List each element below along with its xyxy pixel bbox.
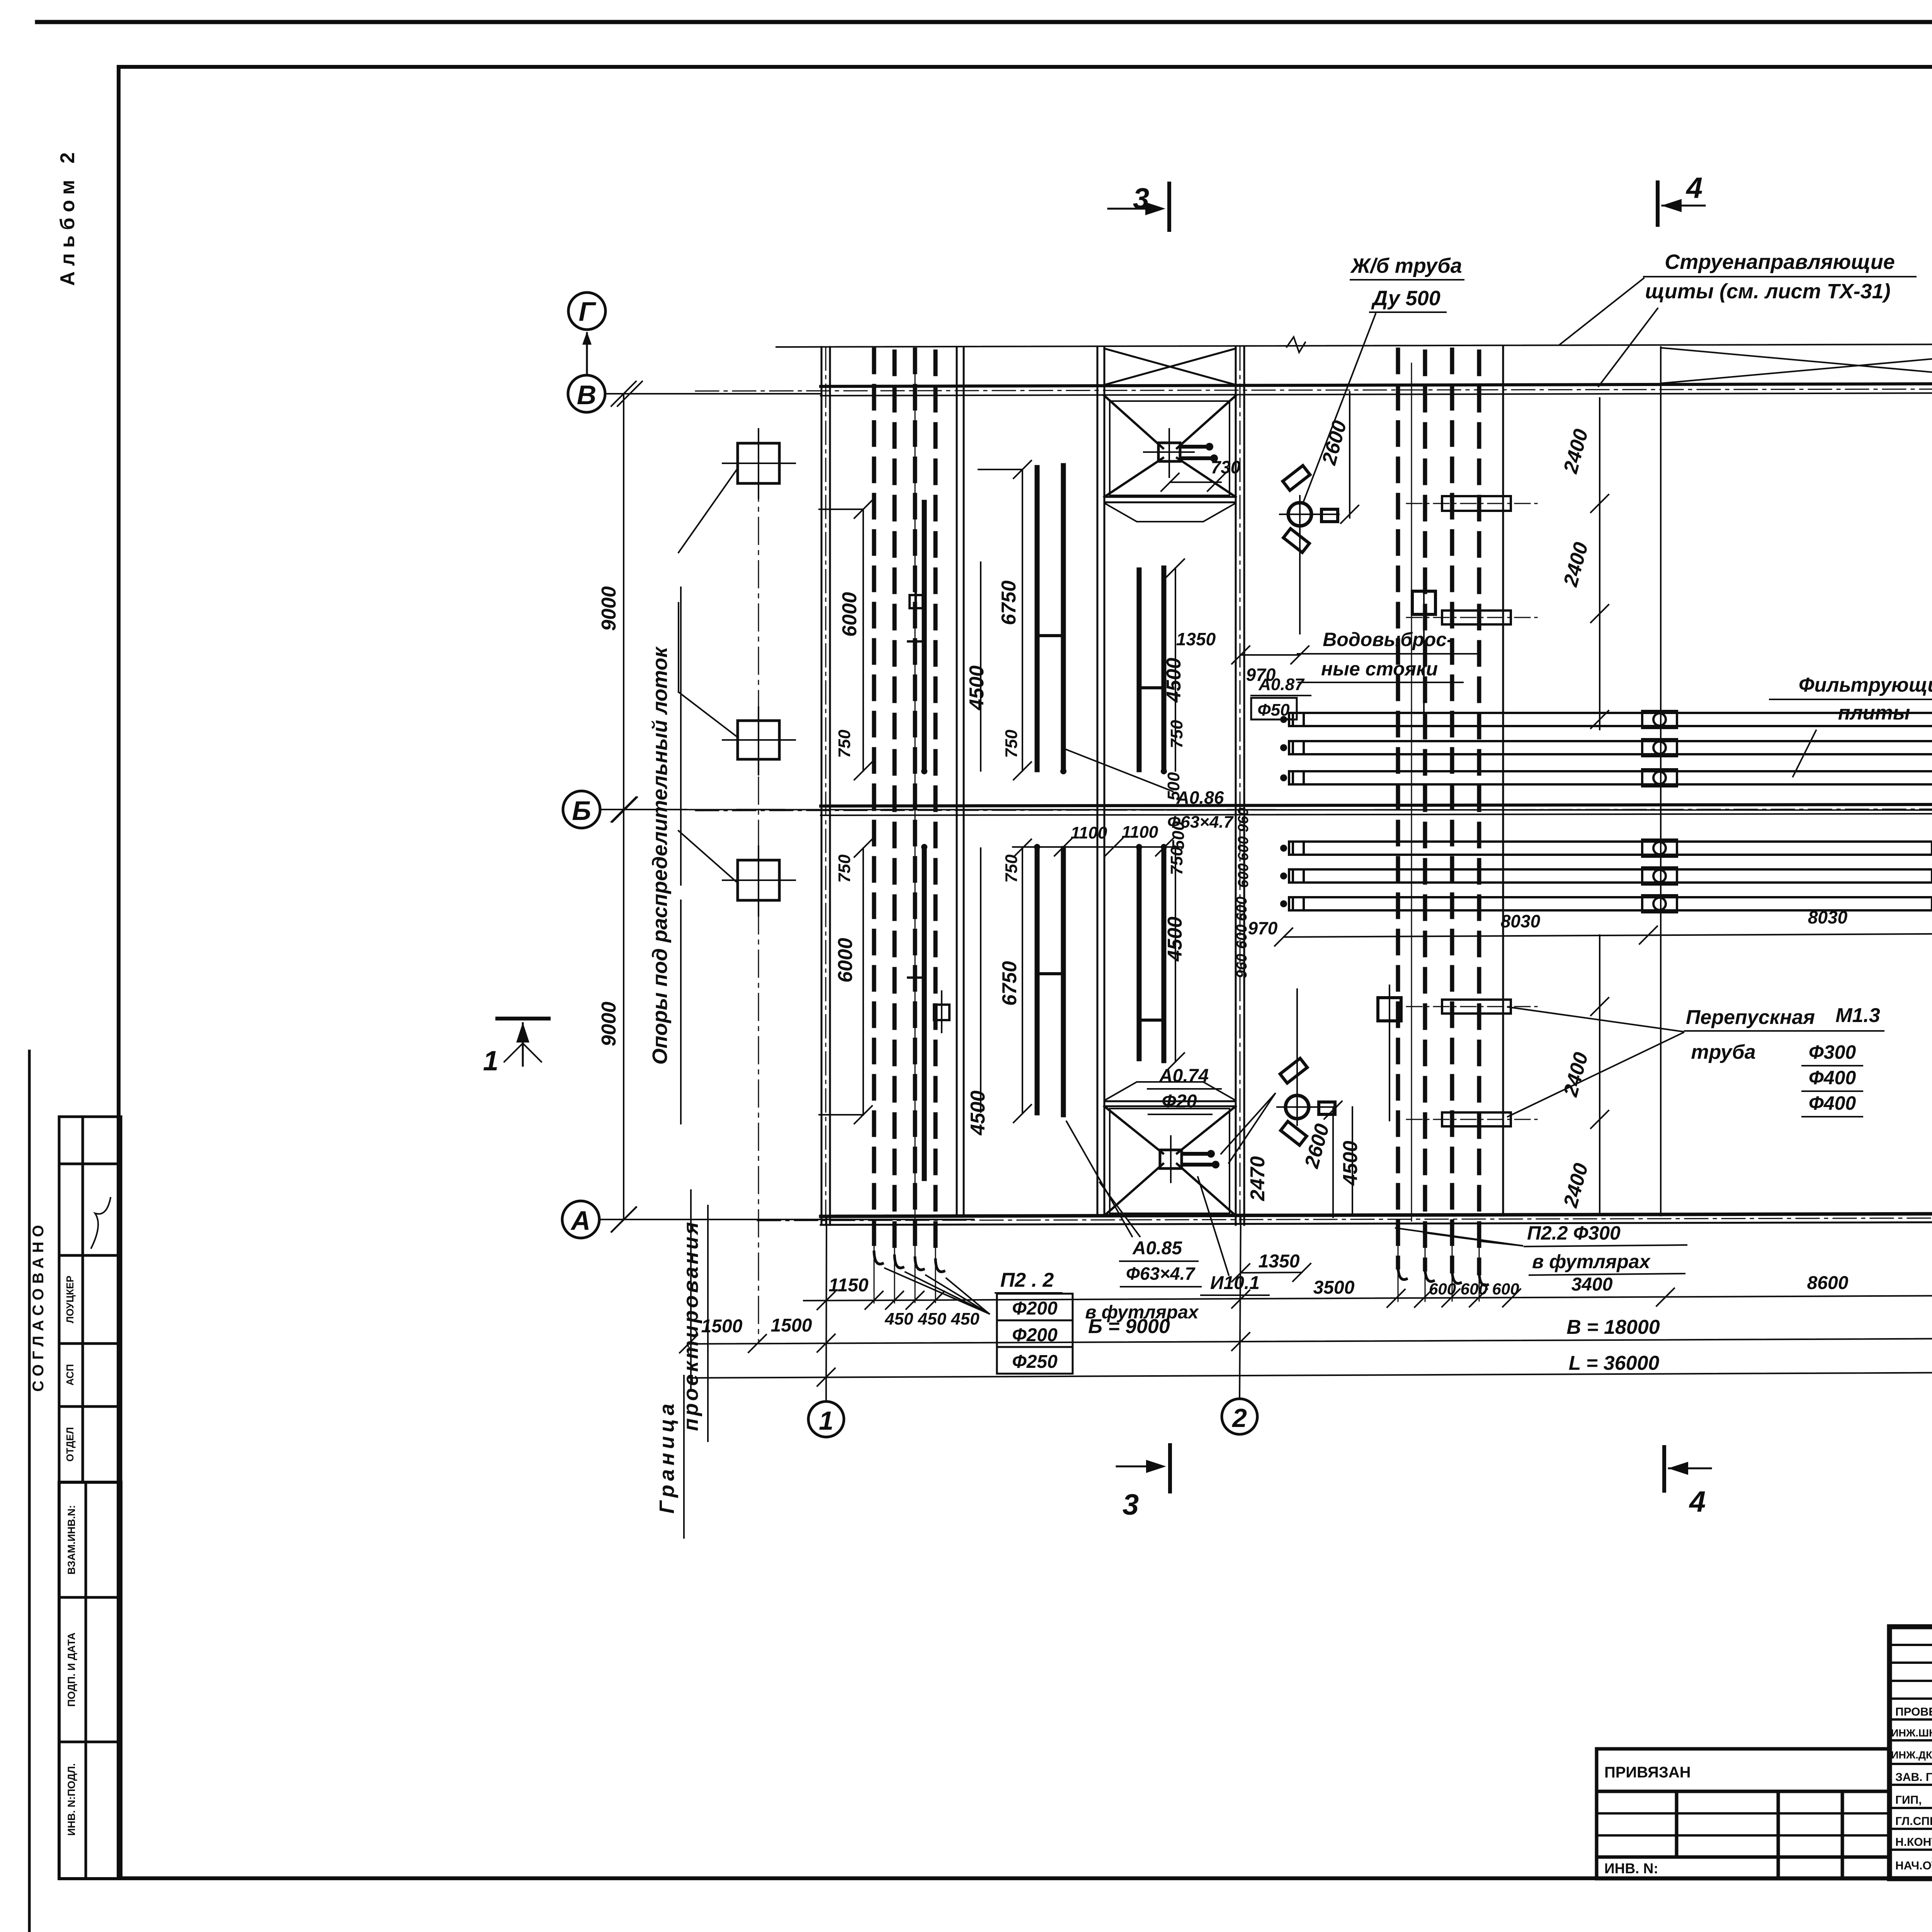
svg-text:1: 1 — [483, 1046, 498, 1077]
svg-text:Ф400: Ф400 — [1809, 1092, 1856, 1114]
svg-text:Фильтрующие: Фильтрующие — [1799, 674, 1932, 696]
bottom axis circles — [808, 1209, 1932, 1437]
svg-text:8030: 8030 — [1808, 907, 1848, 927]
svg-text:Ф63×4.7: Ф63×4.7 — [1126, 1264, 1196, 1284]
gate bars lower ch3 — [1139, 849, 1164, 1061]
svg-text:А: А — [570, 1206, 591, 1236]
svg-text:Струенаправляющие: Струенаправляющие — [1665, 250, 1895, 274]
svg-text:Ф200: Ф200 — [1012, 1325, 1058, 1345]
strip X left — [1104, 349, 1236, 385]
axis circle 2 — [1222, 1399, 1257, 1434]
pipe extension lines to dim row — [874, 1225, 1479, 1303]
mini dim 1350 lower — [1241, 1272, 1302, 1273]
svg-text:750: 750 — [835, 854, 854, 883]
dim 2600 lower — [1332, 1107, 1334, 1217]
svg-text:ГИП,: ГИП, — [1895, 1794, 1922, 1806]
strip X mid — [1661, 348, 1932, 383]
svg-text:в футлярах: в футлярах — [1085, 1302, 1199, 1323]
svg-text:9000: 9000 — [598, 586, 620, 631]
svg-text:600: 600 — [1234, 896, 1250, 921]
svg-text:600: 600 — [1235, 836, 1252, 861]
svg-text:Перепускная: Перепускная — [1686, 1006, 1815, 1029]
wall band А bottom — [821, 1213, 1932, 1216]
svg-text:3400: 3400 — [1571, 1274, 1613, 1295]
svg-text:960: 960 — [1234, 954, 1250, 978]
svg-text:СОГЛАСОВАНО: СОГЛАСОВАНО — [30, 1220, 47, 1391]
dim verticals left section — [819, 469, 1352, 1214]
small square upper mid — [1412, 591, 1435, 614]
left wall — [821, 347, 823, 1225]
svg-text:9000: 9000 — [598, 1002, 620, 1046]
svg-text:М1.3: М1.3 — [1835, 1004, 1880, 1027]
mark 4 bottom — [1662, 1447, 1666, 1491]
clamps lower — [1642, 840, 1677, 912]
svg-text:ГЛ.СПЕЦ.: ГЛ.СПЕЦ. — [1895, 1815, 1932, 1828]
col2 wall — [1235, 347, 1237, 1225]
svg-text:в футлярах: в футлярах — [1532, 1251, 1651, 1272]
svg-text:Ф20: Ф20 — [1162, 1091, 1197, 1112]
futlyar sleeves lower — [1442, 1000, 1511, 1014]
svg-text:4500: 4500 — [1339, 1141, 1362, 1186]
PLAN-WALLS — [696, 333, 1932, 1225]
mechanism upper — [1158, 443, 1180, 461]
mark 3 bottom — [1168, 1445, 1172, 1492]
svg-text:АСП: АСП — [64, 1364, 76, 1386]
svg-text:750: 750 — [1167, 720, 1186, 748]
axis line 1 — [826, 1216, 827, 1401]
svg-text:И10.1: И10.1 — [1210, 1273, 1260, 1293]
svg-text:4500: 4500 — [966, 665, 988, 711]
svg-text:А0.86: А0.86 — [1176, 787, 1224, 808]
svg-text:L = 36000: L = 36000 — [1569, 1352, 1660, 1374]
Zhb truba circle upper — [1288, 503, 1311, 526]
centerlines — [696, 340, 1932, 1224]
dim 730 — [1170, 481, 1221, 483]
9000 dim line left — [611, 381, 636, 1232]
svg-text:ИНЖ.ДКАТ.: ИНЖ.ДКАТ. — [1891, 1749, 1932, 1761]
Zhb truba circle lower — [1286, 1095, 1309, 1119]
filter plates lower band — [1289, 842, 1932, 910]
svg-text:6000: 6000 — [834, 938, 857, 983]
svg-text:4500: 4500 — [967, 1090, 989, 1136]
opory leaders — [679, 468, 738, 883]
AXES — [562, 293, 1932, 1437]
wall x2476 — [956, 347, 958, 1216]
svg-text:970: 970 — [1248, 918, 1278, 938]
svg-text:750: 750 — [835, 730, 854, 758]
svg-text:А0.85: А0.85 — [1132, 1238, 1182, 1259]
dim 2400 col lower — [1599, 935, 1600, 1213]
X cell upper left section — [1104, 396, 1236, 497]
svg-text:ИНВ. N:ПОДЛ.: ИНВ. N:ПОДЛ. — [66, 1763, 77, 1836]
axis line А — [599, 1219, 974, 1220]
granitsa line left — [690, 1190, 692, 1391]
svg-text:1: 1 — [819, 1406, 833, 1435]
svg-text:ЛОУЦКЕР: ЛОУЦКЕР — [64, 1276, 76, 1323]
dim 8030 rows — [1284, 934, 1932, 937]
wall x2840 — [1097, 347, 1099, 1216]
wall band B — [821, 383, 1932, 386]
axis circle А — [562, 1201, 599, 1238]
dashed pipe bundle left section — [874, 350, 935, 1260]
svg-text:Б: Б — [572, 796, 591, 826]
svg-text:Ду 500: Ду 500 — [1371, 287, 1440, 310]
svg-text:3500: 3500 — [1313, 1277, 1355, 1298]
svg-text:1350: 1350 — [1176, 629, 1216, 649]
svg-text:А0.87: А0.87 — [1258, 675, 1305, 694]
svg-text:Ж/б труба: Ж/б труба — [1350, 254, 1462, 277]
svg-text:Опоры под распределительный: Опоры под распределительный лоток — [648, 646, 672, 1065]
svg-text:В = 18000: В = 18000 — [1566, 1316, 1660, 1338]
svg-text:8600: 8600 — [1807, 1273, 1849, 1293]
dim row1 — [804, 1295, 1932, 1301]
pipe hooks below A wall — [874, 1252, 944, 1272]
tick on В — [617, 381, 642, 406]
rotated dims — [834, 418, 1932, 1210]
svg-text:Ф400: Ф400 — [1809, 1067, 1856, 1088]
svg-text:НАЧ.ОТД.: НАЧ.ОТД. — [1895, 1859, 1932, 1872]
dim 2400 col upper — [1599, 398, 1600, 730]
clamps upper — [1642, 711, 1677, 786]
svg-text:4500: 4500 — [1163, 658, 1185, 703]
mini dim 1350 upper inside — [1241, 654, 1300, 656]
axis circle Г — [568, 293, 605, 330]
break marks top line — [1287, 337, 1305, 352]
svg-text:6750: 6750 — [998, 580, 1020, 625]
svg-text:ИНВ. N:: ИНВ. N: — [1604, 1861, 1658, 1876]
svg-text:6000: 6000 — [838, 592, 861, 637]
middle dashed bundle — [1398, 350, 1479, 1273]
opory centerline — [758, 431, 759, 1341]
mark 3 top — [1167, 184, 1171, 230]
svg-text:1150: 1150 — [828, 1275, 869, 1296]
svg-text:8030: 8030 — [1501, 911, 1541, 931]
svg-text:П2.2 Ф300: П2.2 Ф300 — [1527, 1222, 1621, 1244]
svg-text:Ф250: Ф250 — [1012, 1352, 1058, 1372]
gate bars lower ch1 — [908, 849, 924, 1179]
svg-text:750: 750 — [1167, 847, 1186, 875]
svg-text:750: 750 — [1002, 730, 1021, 758]
dim row2 — [689, 1336, 1932, 1344]
svg-text:730: 730 — [1211, 457, 1241, 477]
hopper below upper X cell — [1104, 503, 1236, 522]
axis line В — [605, 393, 821, 395]
TITLE-BLOCK — [1597, 1627, 1932, 1932]
svg-text:ПОДП. И ДАТА: ПОДП. И ДАТА — [66, 1633, 77, 1707]
mechanism lower — [1160, 1150, 1182, 1168]
gate square upper ch1 — [910, 595, 923, 608]
dim row3 — [689, 1370, 1932, 1378]
svg-text:450 450 450: 450 450 450 — [884, 1310, 980, 1328]
gate bars lower ch2 — [1037, 849, 1063, 1115]
svg-text:Водовыброс-: Водовыброс- — [1323, 629, 1453, 650]
LEFT-STAMPS — [30, 1117, 121, 1879]
svg-text:ЗАВ. ГР.: ЗАВ. ГР. — [1895, 1771, 1932, 1784]
svg-text:6750: 6750 — [998, 961, 1021, 1006]
svg-text:А0.74: А0.74 — [1159, 1066, 1209, 1086]
svg-text:1100: 1100 — [1071, 823, 1107, 842]
filter plates upper band — [1289, 713, 1932, 784]
partition upper X cell — [1104, 496, 1236, 498]
futlyar sleeves upper — [1442, 496, 1511, 511]
svg-text:ВЗАМ.ИНВ.N:: ВЗАМ.ИНВ.N: — [66, 1505, 77, 1575]
svg-text:Г: Г — [579, 296, 597, 327]
svg-text:750: 750 — [1002, 854, 1021, 883]
axis circle Б — [563, 791, 600, 828]
small square lower mid — [1378, 998, 1401, 1021]
svg-text:ИНЖ.ШКАТ.: ИНЖ.ШКАТ. — [1891, 1727, 1932, 1739]
top edge line — [776, 343, 1932, 347]
mark 1 left — [497, 1017, 549, 1020]
svg-text:600: 600 — [1235, 863, 1252, 888]
svg-text:труба: труба — [1691, 1041, 1755, 1063]
svg-text:Ф50: Ф50 — [1257, 701, 1290, 719]
svg-text:ПРОВЕР.: ПРОВЕР. — [1895, 1706, 1932, 1718]
svg-text:ПРИВЯЗАН: ПРИВЯЗАН — [1604, 1764, 1691, 1781]
svg-text:проектирования: проектирования — [679, 1220, 702, 1431]
PLAN-DETAILS — [679, 350, 1538, 1341]
svg-text:1350: 1350 — [1259, 1251, 1300, 1272]
svg-text:щиты (см. лист ТХ-31): щиты (см. лист ТХ-31) — [1645, 280, 1890, 303]
gate bars upper ch3 — [1139, 568, 1164, 770]
wall x4298 — [1660, 347, 1662, 1216]
hopper above lower X cell — [1104, 1082, 1236, 1100]
X cell lower left section — [1104, 1106, 1236, 1216]
svg-text:Ф300: Ф300 — [1809, 1041, 1856, 1063]
dim 1100 mini — [1013, 846, 1182, 848]
svg-text:600 600 600: 600 600 600 — [1429, 1280, 1519, 1298]
opory squares — [738, 443, 779, 483]
axis line 2 — [1240, 1217, 1241, 1399]
svg-text:ОТДЕЛ: ОТДЕЛ — [64, 1427, 76, 1462]
svg-text:960: 960 — [1235, 808, 1252, 832]
svg-text:1100: 1100 — [1122, 823, 1158, 842]
svg-text:В: В — [577, 380, 597, 410]
svg-text:600: 600 — [1234, 924, 1250, 949]
gate bars upper ch1 — [908, 502, 924, 770]
svg-text:4: 4 — [1685, 172, 1702, 204]
wall band Б — [821, 804, 1932, 806]
svg-text:Граница: Граница — [655, 1400, 679, 1514]
gate square lower ch1 — [934, 1005, 949, 1020]
section marks — [497, 182, 1932, 1492]
partition lower X cell — [1104, 1100, 1236, 1102]
svg-text:плиты: плиты — [1838, 702, 1910, 724]
arrow В to Г — [586, 333, 588, 375]
inner offset rect left lower X cell — [1110, 1109, 1230, 1213]
svg-text:3: 3 — [1122, 1488, 1139, 1521]
axis circle 1 — [808, 1401, 844, 1437]
svg-text:1500: 1500 — [771, 1315, 812, 1336]
thin line in bundle — [915, 363, 916, 1221]
gate bars upper ch2 — [1037, 466, 1063, 770]
inner offset rect left upper X cell — [1110, 401, 1230, 495]
wall x3890 — [1502, 347, 1504, 1216]
svg-text:Ф63×4.7: Ф63×4.7 — [1167, 813, 1234, 832]
svg-text:4: 4 — [1689, 1485, 1706, 1518]
axis circle В — [568, 375, 605, 412]
svg-text:2: 2 — [1231, 1403, 1247, 1433]
axis line Б — [600, 810, 1932, 810]
mark 4 top — [1656, 182, 1660, 225]
svg-text:Н.КОНТР.: Н.КОНТР. — [1895, 1836, 1932, 1849]
svg-text:2470: 2470 — [1247, 1156, 1269, 1201]
svg-text:Альбом 2: Альбом 2 — [56, 147, 79, 286]
svg-text:ные стояки: ные стояки — [1321, 658, 1438, 680]
dim 2600 upper — [1349, 392, 1350, 518]
svg-text:3: 3 — [1133, 182, 1149, 215]
svg-text:П2 . 2: П2 . 2 — [1000, 1269, 1054, 1291]
svg-text:Ф200: Ф200 — [1012, 1298, 1058, 1319]
